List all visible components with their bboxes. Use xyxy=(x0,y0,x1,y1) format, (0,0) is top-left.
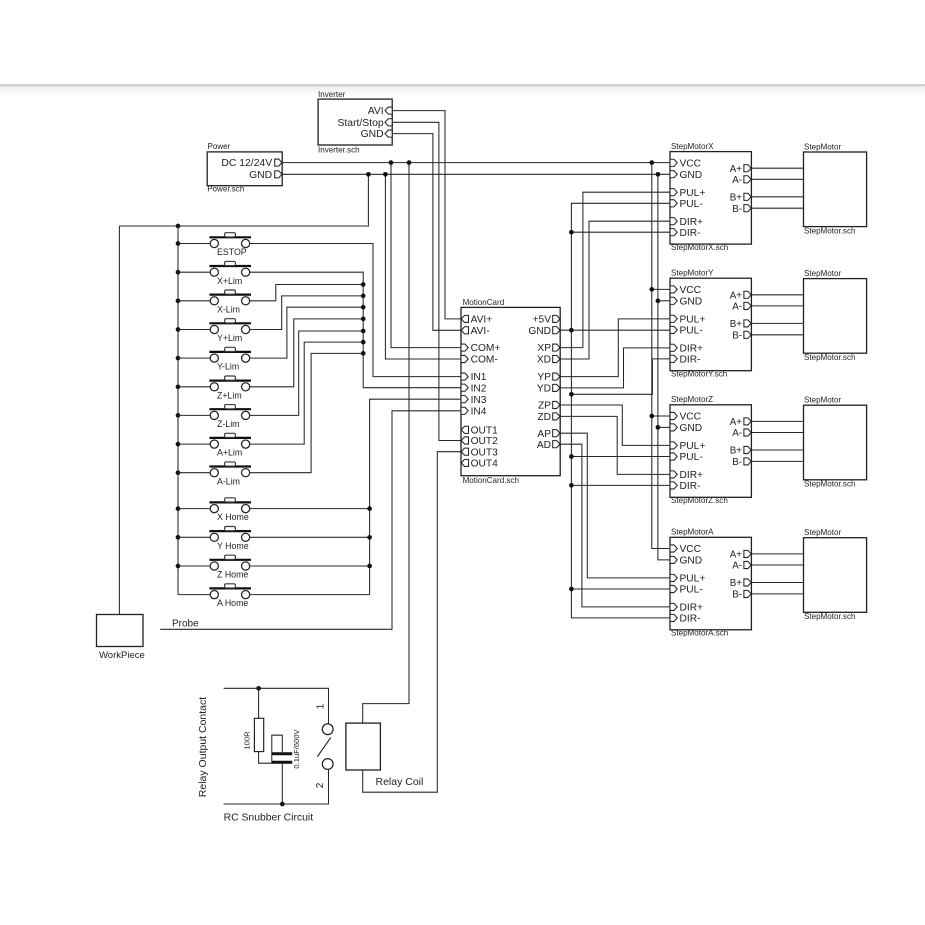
pin Start/Stop xyxy=(385,119,392,126)
junction ground DIR- Z xyxy=(569,483,574,488)
svg-text:AD: AD xyxy=(537,440,551,451)
svg-text:A-Lim: A-Lim xyxy=(217,476,240,486)
svg-text:A+: A+ xyxy=(730,550,743,561)
wire Probe to IN4 xyxy=(160,411,461,630)
svg-text:GND: GND xyxy=(680,170,703,181)
pin DIR- xyxy=(670,229,677,236)
pin IN2 xyxy=(461,384,468,391)
pin OUT1 xyxy=(461,426,468,433)
wire Z+Lim to limit bus xyxy=(250,319,364,387)
junction signal ground at GND xyxy=(569,328,574,333)
wire B+ to motor Z xyxy=(751,449,803,451)
wire A- to motor Y xyxy=(751,305,803,307)
svg-text:A+: A+ xyxy=(730,164,743,175)
pin A- xyxy=(744,176,751,183)
relay coil K1 xyxy=(346,723,381,770)
pin XP xyxy=(553,344,560,351)
wire inverter Start/Stop to OUT2 xyxy=(392,122,461,440)
pin A+ xyxy=(744,550,751,557)
svg-text:A-: A- xyxy=(732,302,742,313)
svg-text:COM-: COM- xyxy=(471,355,498,366)
resistor R 100R xyxy=(258,688,260,718)
wire A- to motor Z xyxy=(751,432,803,434)
pin DIR- xyxy=(670,614,677,621)
junction common bus at ESTOP xyxy=(176,241,181,246)
wire X-Lim to limit bus xyxy=(250,285,364,301)
wire Y Home to home bus xyxy=(250,536,370,538)
capacitor C 0.1uF/600V xyxy=(272,752,292,755)
pin YD xyxy=(553,384,560,391)
pin A- xyxy=(744,561,751,568)
inverter sheet Inverter xyxy=(318,99,392,145)
svg-text:B-: B- xyxy=(732,590,742,601)
svg-text:StepMotorY.sch: StepMotorY.sch xyxy=(671,369,727,378)
pin VCC xyxy=(670,286,677,293)
wire card GND to PUL- StepMotorY xyxy=(560,329,670,331)
pin VCC xyxy=(670,159,677,166)
wire Y+Lim to limit bus xyxy=(250,296,364,330)
wire Z-Lim to limit bus xyxy=(250,331,364,415)
wire B- to motor A xyxy=(751,593,803,595)
junction VCC bus top xyxy=(649,160,654,165)
step motor sheet StepMotor (Y axis) xyxy=(804,279,867,354)
wire A- to motor A xyxy=(751,564,803,566)
svg-text:AP: AP xyxy=(537,429,551,440)
motion controller sheet MotionCard xyxy=(461,307,560,475)
pin COM+ xyxy=(461,344,468,351)
wire GND drop to COM- xyxy=(385,174,461,359)
pushbutton switch Z-Lim xyxy=(209,405,251,420)
pin B- xyxy=(744,590,751,597)
wire common bus to X+Lim xyxy=(178,271,210,273)
pin PUL- xyxy=(670,200,677,207)
wire DC 12/24V bus to VCC StepMotorX xyxy=(282,162,670,164)
pin VCC xyxy=(670,412,677,419)
svg-text:ESTOP: ESTOP xyxy=(217,247,247,257)
svg-text:DIR-: DIR- xyxy=(680,481,701,492)
pin GND xyxy=(385,130,392,137)
svg-text:StepMotor.sch: StepMotor.sch xyxy=(804,353,855,362)
svg-text:COM+: COM+ xyxy=(471,343,501,354)
pin DIR+ xyxy=(670,603,677,610)
pushbutton switch Z+Lim xyxy=(209,376,251,391)
wire common bus to X-Lim xyxy=(178,300,210,302)
svg-text:PUL+: PUL+ xyxy=(680,188,706,199)
svg-text:YD: YD xyxy=(537,384,551,395)
svg-text:PUL-: PUL- xyxy=(680,452,703,463)
junction common bus at X-Lim xyxy=(176,298,181,303)
wire common bus to A-Lim xyxy=(178,472,210,474)
svg-text:A+: A+ xyxy=(730,290,743,301)
svg-text:+5V: +5V xyxy=(533,315,552,326)
junction common bus at Y Home xyxy=(176,535,181,540)
svg-text:2: 2 xyxy=(315,782,326,788)
svg-text:DIR+: DIR+ xyxy=(680,470,704,481)
block WorkPiece xyxy=(97,615,144,647)
wire Z Home to home bus xyxy=(250,565,370,567)
step motor sheet StepMotor (Z axis) xyxy=(804,405,867,480)
svg-text:StepMotorY: StepMotorY xyxy=(671,269,714,278)
pushbutton switch A-Lim xyxy=(209,462,251,477)
junction VCC Y xyxy=(649,287,654,292)
junction common bus at X+Lim xyxy=(176,270,181,275)
wire common bus to Y-Lim xyxy=(178,357,210,359)
pin AP xyxy=(553,430,560,437)
svg-text:B+: B+ xyxy=(730,192,743,203)
svg-text:GND: GND xyxy=(528,326,551,337)
svg-text:A-: A- xyxy=(732,561,742,572)
wire X+Lim to limit bus / IN2 xyxy=(250,272,461,388)
svg-text:StepMotor: StepMotor xyxy=(804,396,841,405)
svg-text:StepMotorZ: StepMotorZ xyxy=(671,395,713,404)
pin A- xyxy=(744,429,751,436)
svg-text:Y-Lim: Y-Lim xyxy=(217,362,239,372)
svg-text:DIR+: DIR+ xyxy=(680,217,704,228)
svg-text:A+: A+ xyxy=(730,417,743,428)
junction limit bus A-Lim xyxy=(361,351,366,356)
pushbutton switch A+Lim xyxy=(209,433,251,448)
svg-text:B+: B+ xyxy=(730,578,743,589)
svg-text:B-: B- xyxy=(732,204,742,215)
wire Y-Lim to limit bus xyxy=(250,307,364,358)
pin PUL- xyxy=(670,585,677,592)
svg-text:AVI-: AVI- xyxy=(471,326,490,337)
pin GND xyxy=(670,171,677,178)
svg-text:Inverter: Inverter xyxy=(318,90,346,99)
wire switch common bus (left vertical) xyxy=(177,226,179,595)
svg-text:VCC: VCC xyxy=(680,412,702,423)
svg-text:GND: GND xyxy=(361,129,384,140)
svg-text:StepMotorX: StepMotorX xyxy=(671,142,714,151)
svg-text:MotionCard.sch: MotionCard.sch xyxy=(463,476,519,485)
svg-text:OUT3: OUT3 xyxy=(471,447,499,458)
svg-text:B-: B- xyxy=(732,330,742,341)
wire signal-ground vertical bus xyxy=(571,203,670,618)
svg-text:A+Lim: A+Lim xyxy=(217,448,242,458)
power supply sheet Power xyxy=(207,152,282,186)
pin PUL+ xyxy=(670,189,677,196)
svg-text:PUL-: PUL- xyxy=(680,585,703,596)
svg-text:DIR-: DIR- xyxy=(680,228,701,239)
svg-text:Power: Power xyxy=(208,142,231,151)
svg-text:XP: XP xyxy=(537,343,551,354)
svg-text:StepMotorA: StepMotorA xyxy=(671,528,714,537)
wire home bus to IN3 xyxy=(370,399,461,594)
pushbutton switch Z Home xyxy=(209,555,251,570)
wire XP to PUL+ X xyxy=(560,192,670,347)
pushbutton switch X-Lim xyxy=(209,290,251,305)
wire XD to DIR+ X xyxy=(560,221,670,359)
svg-text:StepMotorZ.sch: StepMotorZ.sch xyxy=(671,496,728,505)
pin GND xyxy=(670,297,677,304)
wire ZP to PUL+ Z xyxy=(560,405,670,445)
junction limit bus Z-Lim xyxy=(361,329,366,334)
wire ground to DIR- StepMotorY xyxy=(571,359,670,394)
junction common bus at X Home xyxy=(176,506,181,511)
svg-text:A Home: A Home xyxy=(217,598,248,608)
wire common bus to X Home xyxy=(178,508,210,510)
pushbutton switch Y+Lim xyxy=(209,319,251,334)
svg-text:DIR+: DIR+ xyxy=(680,603,704,614)
svg-text:0.1uF/600V: 0.1uF/600V xyxy=(292,728,301,768)
wire AP to PUL+ A xyxy=(560,433,670,578)
junction DC relay drop xyxy=(407,160,412,165)
svg-text:VCC: VCC xyxy=(680,544,702,555)
svg-text:WorkPiece: WorkPiece xyxy=(99,650,145,661)
pin B+ xyxy=(744,579,751,586)
svg-text:A-: A- xyxy=(732,428,742,439)
wire ground to PUL- StepMotorA xyxy=(571,588,670,590)
svg-text:B+: B+ xyxy=(730,446,743,457)
wire A-Lim to limit bus xyxy=(250,353,364,472)
pin ZP xyxy=(553,401,560,408)
junction GND Z xyxy=(656,425,661,430)
pin YP xyxy=(553,373,560,380)
pin GND xyxy=(275,171,282,178)
svg-text:StepMotorA.sch: StepMotorA.sch xyxy=(671,629,728,638)
junction capacitor bottom xyxy=(280,802,285,807)
stepper driver sheet StepMotorA xyxy=(670,537,751,630)
pin ZD xyxy=(553,413,560,420)
page separator rule xyxy=(0,84,925,86)
svg-text:IN1: IN1 xyxy=(471,372,487,383)
wire B- to motor X xyxy=(751,207,803,209)
junction common bus at Z Home xyxy=(176,564,181,569)
junction GND COM- drop xyxy=(383,172,388,177)
wire common bus to Y+Lim xyxy=(178,329,210,331)
junction common bus at A-Lim xyxy=(176,470,181,475)
svg-text:Y+Lim: Y+Lim xyxy=(217,333,242,343)
wire B+ to motor X xyxy=(751,196,803,198)
wire B+ to motor A xyxy=(751,582,803,584)
pin B- xyxy=(744,331,751,338)
junction common bus at Z-Lim xyxy=(176,413,181,418)
svg-text:Y Home: Y Home xyxy=(217,541,249,551)
wire inverter GND to AVI- xyxy=(392,134,461,331)
stepper driver sheet StepMotorZ xyxy=(670,405,751,498)
pin GND xyxy=(553,327,560,334)
pin DIR- xyxy=(670,482,677,489)
pin XD xyxy=(553,355,560,362)
svg-text:VCC: VCC xyxy=(680,285,702,296)
svg-text:Z-Lim: Z-Lim xyxy=(217,419,239,429)
svg-text:XD: XD xyxy=(537,355,551,366)
pin B+ xyxy=(744,446,751,453)
svg-text:Inverter.sch: Inverter.sch xyxy=(318,146,360,155)
svg-text:IN4: IN4 xyxy=(471,406,487,417)
junction limit bus Z+Lim xyxy=(361,317,366,322)
pin AVI xyxy=(385,107,392,114)
svg-text:PUL-: PUL- xyxy=(680,326,703,337)
pin DIR+ xyxy=(670,344,677,351)
pin COM- xyxy=(461,355,468,362)
svg-text:RC Snubber Circuit: RC Snubber Circuit xyxy=(224,812,314,823)
svg-text:DIR-: DIR- xyxy=(680,614,701,625)
svg-text:GND: GND xyxy=(680,296,703,307)
wire common bus to Z+Lim xyxy=(178,386,210,388)
wire GND to StepMotorY xyxy=(658,300,670,302)
wire B- to motor Y xyxy=(751,334,803,336)
svg-text:Z+Lim: Z+Lim xyxy=(217,390,242,400)
wire GND vertical bus xyxy=(658,174,670,560)
wire A+ to motor A xyxy=(751,553,803,555)
junction home bus X Home xyxy=(367,506,372,511)
wire ground to DIR- StepMotorX xyxy=(571,231,670,233)
junction ground PUL- A xyxy=(569,587,574,592)
wire VCC vertical bus xyxy=(652,163,670,549)
pushbutton switch Y-Lim xyxy=(209,347,251,362)
wire AD to DIR+ A xyxy=(560,444,670,607)
step motor sheet StepMotor (X axis) xyxy=(804,152,867,227)
pushbutton switch X Home xyxy=(209,498,251,513)
junction ground DIR- X xyxy=(569,230,574,235)
wire YD to DIR+ Y xyxy=(560,348,670,388)
svg-text:StepMotor.sch: StepMotor.sch xyxy=(804,480,855,489)
svg-text:IN2: IN2 xyxy=(471,383,487,394)
pushbutton switch ESTOP xyxy=(209,233,251,248)
svg-text:Z Home: Z Home xyxy=(217,570,248,580)
svg-text:Relay Output Contact: Relay Output Contact xyxy=(197,697,209,797)
wire relay contact rail 2 xyxy=(224,770,329,804)
pin IN4 xyxy=(461,407,468,414)
pin A+ xyxy=(744,291,751,298)
wire ground to PUL- StepMotorZ xyxy=(571,456,670,458)
svg-text:YP: YP xyxy=(537,372,551,383)
svg-text:AVI+: AVI+ xyxy=(471,315,493,326)
step motor sheet StepMotor (A axis) xyxy=(804,538,867,613)
svg-text:MotionCard: MotionCard xyxy=(463,298,505,307)
pin B- xyxy=(744,205,751,212)
pin OUT2 xyxy=(461,437,468,444)
pin PUL+ xyxy=(670,442,677,449)
wire B- to motor Z xyxy=(751,460,803,462)
junction limit bus Y+Lim xyxy=(361,294,366,299)
junction DC COM+ drop xyxy=(389,160,394,165)
svg-text:OUT4: OUT4 xyxy=(471,459,499,470)
pin OUT4 xyxy=(461,459,468,466)
svg-text:Relay Coil: Relay Coil xyxy=(376,776,424,788)
junction home bus Y Home xyxy=(367,535,372,540)
junction limit bus Y-Lim xyxy=(361,305,366,310)
pin B+ xyxy=(744,320,751,327)
pin A+ xyxy=(744,165,751,172)
wire DC drop to relay coil xyxy=(363,163,409,724)
pin DIR+ xyxy=(670,218,677,225)
pin GND xyxy=(670,424,677,431)
svg-text:DIR+: DIR+ xyxy=(680,343,704,354)
wire A+Lim to limit bus xyxy=(250,342,364,444)
svg-text:IN3: IN3 xyxy=(471,395,487,406)
pin VCC xyxy=(670,545,677,552)
junction limit bus A+Lim xyxy=(361,340,366,345)
svg-text:X-Lim: X-Lim xyxy=(217,304,240,314)
svg-text:StepMotor.sch: StepMotor.sch xyxy=(804,612,855,621)
svg-text:1: 1 xyxy=(315,703,326,709)
wire VCC to StepMotorZ xyxy=(652,415,670,417)
svg-text:Probe: Probe xyxy=(172,619,199,630)
junction GND drop xyxy=(366,172,371,177)
wire A Home to home bus xyxy=(250,594,370,596)
stepper driver sheet StepMotorX xyxy=(670,152,751,245)
pin GND xyxy=(670,556,677,563)
pushbutton switch A Home xyxy=(209,584,251,599)
pushbutton switch Y Home xyxy=(209,527,251,542)
stepper driver sheet StepMotorY xyxy=(670,278,751,371)
wire common bus to Y Home xyxy=(178,536,210,538)
svg-text:PUL+: PUL+ xyxy=(680,314,706,325)
wire power GND bus to GND StepMotorX xyxy=(282,173,670,175)
pin A- xyxy=(744,302,751,309)
wire ground to DIR- StepMotorZ xyxy=(571,484,670,486)
svg-text:B-: B- xyxy=(732,457,742,468)
svg-text:DC 12/24V: DC 12/24V xyxy=(221,158,272,169)
junction resistor top xyxy=(256,686,261,691)
junction GND Y xyxy=(656,298,661,303)
svg-text:ZP: ZP xyxy=(538,401,551,412)
svg-text:100R: 100R xyxy=(242,731,251,750)
wire A+ to motor X xyxy=(751,167,803,169)
svg-text:OUT1: OUT1 xyxy=(471,425,499,436)
svg-text:Start/Stop: Start/Stop xyxy=(337,118,383,129)
svg-text:VCC: VCC xyxy=(680,158,702,169)
svg-text:GND: GND xyxy=(680,423,703,434)
wire common bus to A+Lim xyxy=(178,443,210,445)
pin +5V xyxy=(553,315,560,322)
junction ground DIR- Y link xyxy=(569,392,574,397)
pin AVI- xyxy=(461,327,468,334)
svg-text:StepMotor: StepMotor xyxy=(804,269,841,278)
pin PUL- xyxy=(670,453,677,460)
pin PUL+ xyxy=(670,315,677,322)
junction ground PUL- Z xyxy=(569,454,574,459)
svg-text:OUT2: OUT2 xyxy=(471,436,499,447)
wire to WorkPiece xyxy=(118,226,120,615)
junction common bus at Z+Lim xyxy=(176,384,181,389)
pin OUT3 xyxy=(461,448,468,455)
wire capacitor to rail 2 xyxy=(281,764,283,804)
svg-text:B+: B+ xyxy=(730,319,743,330)
svg-text:Power.sch: Power.sch xyxy=(207,185,244,194)
wire inverter AVI to AVI+ xyxy=(392,111,461,319)
wire ZD to DIR+ Z xyxy=(560,416,670,474)
wire A- to motor X xyxy=(751,178,803,180)
junction home bus Z Home xyxy=(367,564,372,569)
junction common bus at Y+Lim xyxy=(176,327,181,332)
wire DC drop to COM+ xyxy=(391,163,461,348)
wire A+ to motor Y xyxy=(751,294,803,296)
svg-text:GND: GND xyxy=(249,170,272,181)
wire common bus to Z Home xyxy=(178,565,210,567)
wire A+ to motor Z xyxy=(751,420,803,422)
svg-text:PUL+: PUL+ xyxy=(680,574,706,585)
junction common bus at A+Lim xyxy=(176,442,181,447)
svg-text:X Home: X Home xyxy=(217,512,249,522)
pin AD xyxy=(553,441,560,448)
pin PUL- xyxy=(670,326,677,333)
junction VCC Z xyxy=(649,414,654,419)
wire OUT3 to relay coil xyxy=(363,452,461,793)
svg-text:StepMotorX.sch: StepMotorX.sch xyxy=(671,243,728,252)
wire ESTOP to IN1 xyxy=(250,244,461,377)
pin B- xyxy=(744,458,751,465)
junction GND bus top xyxy=(656,172,661,177)
pin AVI+ xyxy=(461,315,468,322)
relay contact switch SW1 xyxy=(322,724,333,735)
wire common bus to ESTOP xyxy=(178,243,210,245)
pin PUL+ xyxy=(670,574,677,581)
pin IN3 xyxy=(461,396,468,403)
svg-text:StepMotor.sch: StepMotor.sch xyxy=(804,227,855,236)
